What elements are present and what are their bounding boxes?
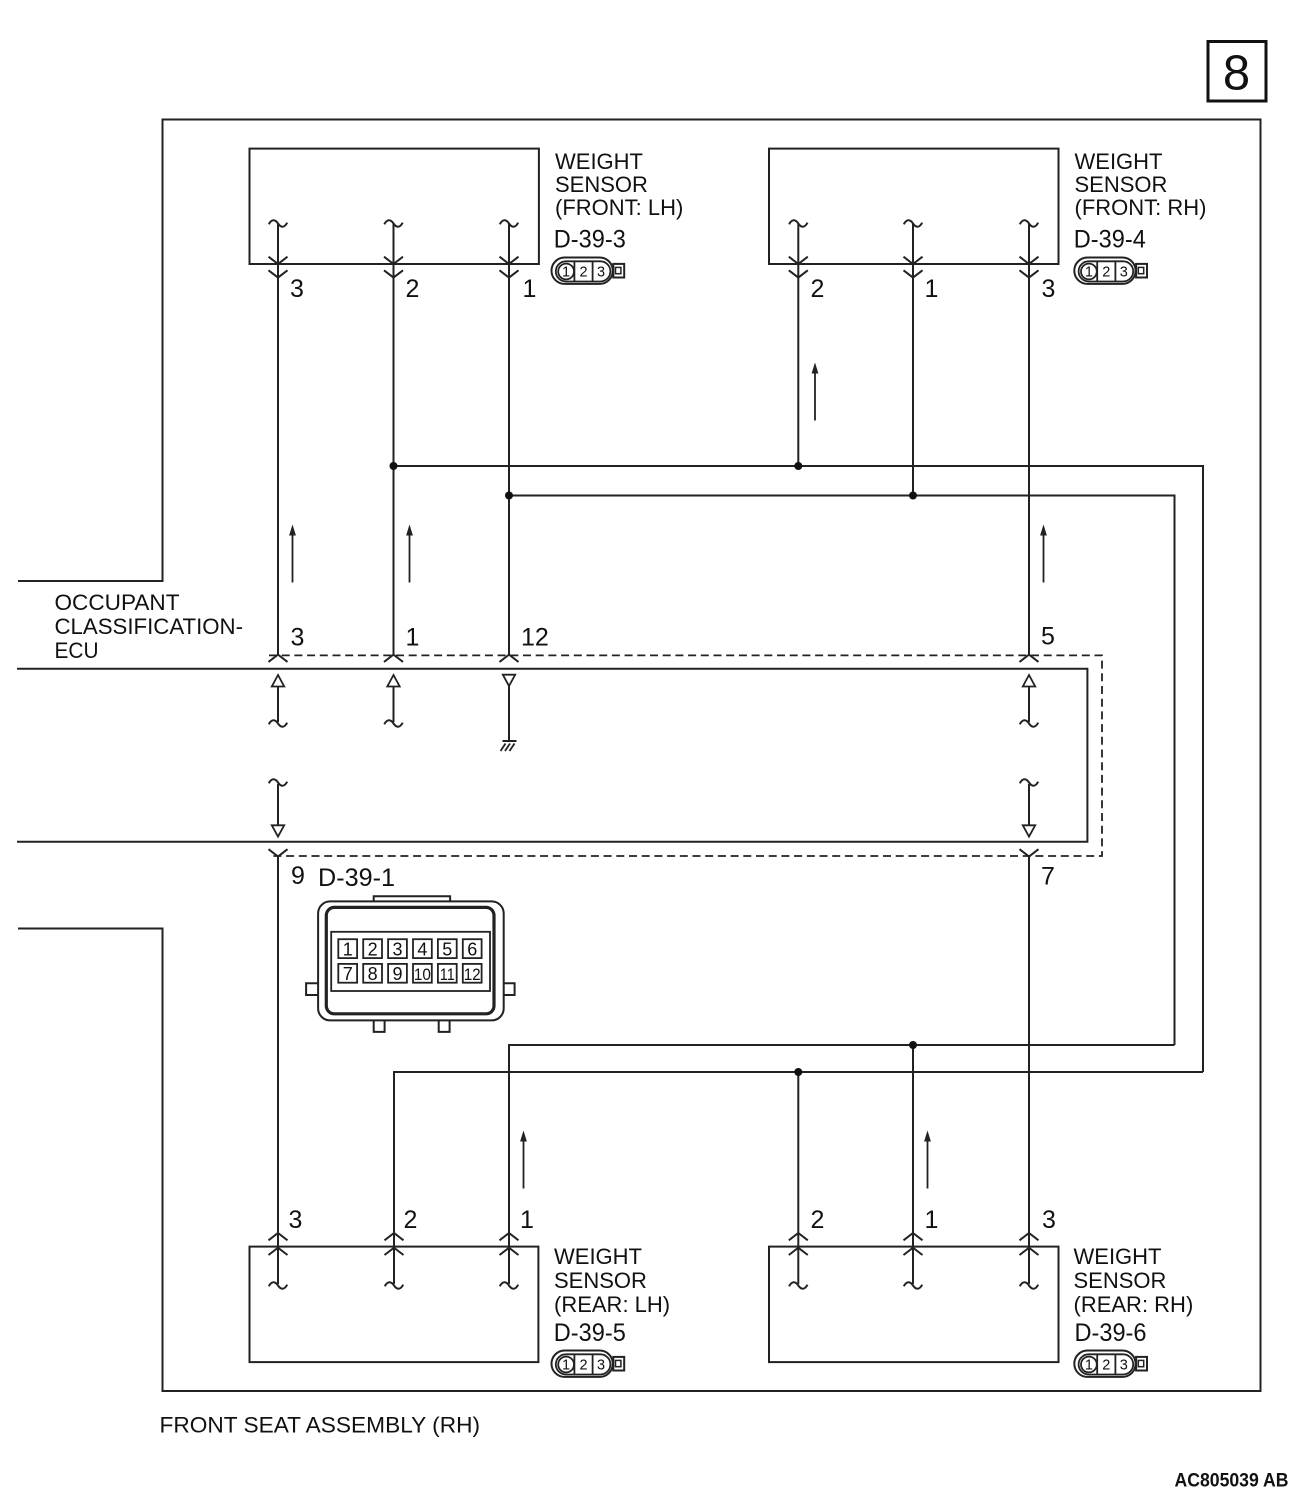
junction dot L2/front LH pin1 [505,492,513,500]
svg-text:5: 5 [442,939,452,959]
svg-text:D-39-1: D-39-1 [318,864,395,892]
svg-text:2: 2 [811,275,825,303]
svg-text:1: 1 [925,275,939,303]
svg-text:(REAR: LH): (REAR: LH) [554,1292,670,1317]
connector D-39-1 dashed outline [269,655,1102,856]
svg-text:11: 11 [440,965,455,984]
sheet number box 8 [1208,42,1266,102]
ECU pin 3 [269,624,305,727]
svg-text:3: 3 [1042,1206,1056,1234]
bus wire L3 to rear LH pin1 [509,1045,1175,1284]
svg-text:D-39-6: D-39-6 [1075,1319,1147,1347]
svg-text:1: 1 [925,1206,939,1234]
junction dot L3/rear RH pin1 [909,1041,917,1049]
ECU pin5 lower continuation [1020,779,1038,836]
svg-text:ECU: ECU [55,638,99,663]
label WEIGHT SENSOR (FRONT: RH) [1075,149,1207,220]
svg-text:2: 2 [811,1206,825,1234]
svg-text:AC805039 AB: AC805039 AB [1175,1470,1289,1492]
wire ECU pin7 to rear RH pin3 [1028,857,1030,1285]
ground at ECU pin 12 [501,741,517,751]
front RH pin2 terminal [789,220,825,303]
ECU pin 1 [384,624,419,727]
svg-text:12: 12 [464,965,481,984]
svg-text:7: 7 [343,964,353,984]
weight sensor front RH box [769,149,1059,264]
front LH pin3 terminal [269,220,304,303]
pin 7 cavity [338,964,357,983]
svg-text:(FRONT: LH): (FRONT: LH) [555,195,683,220]
rear LH pin3 terminal [269,1206,303,1289]
junction dot L4/rear RH pin2 [794,1068,802,1076]
wire front RH pin3 to ECU pin5 [1028,224,1030,655]
svg-text:SENSOR: SENSOR [1075,172,1168,197]
pin 5 cavity [438,939,457,958]
connector icon D-39-5 [552,1351,625,1377]
signal arrow near front RH pin2 wire [812,363,819,421]
signal arrow near rear LH pin1 wire [520,1131,527,1189]
pin 8 cavity [363,964,382,983]
svg-text:D-39-3: D-39-3 [554,225,626,253]
svg-text:D-39-4: D-39-4 [1074,225,1146,253]
svg-text:(FRONT: RH): (FRONT: RH) [1075,195,1207,220]
svg-text:SENSOR: SENSOR [1074,1268,1167,1293]
rear LH pin2 terminal [385,1206,418,1289]
front RH pin3 terminal [1020,220,1056,303]
svg-text:WEIGHT: WEIGHT [554,1244,642,1269]
connector icon D-39-4 [1074,258,1147,284]
connector D-39-1 housing icon [306,896,514,1032]
svg-text:2: 2 [404,1206,418,1234]
rear RH pin3 terminal [1020,1206,1056,1289]
weight sensor rear RH box [769,1247,1059,1363]
svg-text:1: 1 [523,275,537,303]
front LH pin2 terminal [384,220,419,303]
signal arrow near ECU pin5 [1040,525,1047,583]
wire front LH pin2 to ECU pin1 [393,224,395,655]
junction dot L1/front RH pin2 [794,462,802,470]
ECU pin 5 [1020,623,1055,727]
svg-text:1: 1 [406,624,420,652]
pin 3 cavity [388,939,407,958]
svg-text:3: 3 [290,275,304,303]
ECU pin 12 [500,624,549,741]
svg-text:3: 3 [291,624,305,652]
wire ECU pin9 to rear LH pin3 [277,857,279,1285]
label WEIGHT SENSOR (FRONT: LH) [555,149,683,220]
junction dot L2/front RH pin1 [909,492,917,500]
svg-text:6: 6 [467,939,477,959]
rear LH pin1 terminal [500,1206,534,1289]
svg-text:9: 9 [291,862,305,890]
pin 6 cavity [463,939,482,958]
wire front RH pin2 to bus L1 [797,224,799,466]
svg-text:10: 10 [414,965,431,984]
pin 2 cavity [363,939,382,958]
pin 12 cavity [463,964,482,983]
svg-text:1: 1 [520,1206,534,1234]
svg-text:9: 9 [392,964,402,984]
bus wire L4 to rear LH pin2 [394,1072,1203,1284]
front RH pin1 terminal [904,220,939,303]
svg-text:2: 2 [368,939,378,959]
label WEIGHT SENSOR (REAR: LH) [554,1244,670,1317]
connector icon D-39-6 [1074,1351,1147,1377]
svg-text:SENSOR: SENSOR [555,172,648,197]
wire drop to rear RH pin2 [797,1072,799,1284]
svg-text:D-39-5: D-39-5 [554,1319,626,1347]
bus wire L1 (pin1 net) [394,466,1204,1072]
svg-text:SENSOR: SENSOR [554,1268,647,1293]
junction dot L1/front LH pin2 [390,462,398,470]
signal arrow near ECU pin1 [406,525,413,583]
svg-text:CLASSIFICATION-: CLASSIFICATION- [55,614,243,639]
occupant classification ECU block [17,669,1087,842]
label WEIGHT SENSOR (REAR: RH) [1074,1244,1194,1317]
signal arrow near ECU pin3 [289,525,296,583]
svg-text:OCCUPANT: OCCUPANT [55,590,180,615]
bus wire L2 (pin12 net) [509,496,1175,1046]
weight sensor front LH box [250,149,539,264]
signal arrow near rear RH pin1 wire [924,1131,931,1189]
pin 4 cavity [413,939,432,958]
ECU pin 9 [269,849,305,890]
svg-text:5: 5 [1041,623,1055,651]
connector icon D-39-3 [552,258,625,284]
front LH pin1 terminal [500,220,537,303]
wire front LH pin3 to ECU pin3 [277,224,279,655]
svg-text:FRONT SEAT ASSEMBLY (RH): FRONT SEAT ASSEMBLY (RH) [160,1413,481,1438]
svg-text:(REAR: RH): (REAR: RH) [1074,1292,1194,1317]
ECU pin3 lower continuation [269,779,287,836]
svg-text:WEIGHT: WEIGHT [1074,1244,1162,1269]
svg-text:1: 1 [343,939,353,959]
svg-text:3: 3 [1042,275,1056,303]
pin 9 cavity [388,964,407,983]
ECU pin 7 [1020,849,1055,890]
weight sensor rear LH box [250,1247,539,1363]
svg-text:8: 8 [1223,47,1250,101]
wire drop to rear RH pin1 [912,1045,914,1284]
svg-text:7: 7 [1041,863,1055,891]
svg-text:12: 12 [521,624,549,652]
svg-text:3: 3 [289,1206,303,1234]
svg-text:4: 4 [417,939,427,959]
svg-text:WEIGHT: WEIGHT [555,149,643,174]
wire front RH pin1 to bus L2 [912,224,914,496]
pin 1 cavity [338,939,357,958]
svg-text:3: 3 [392,939,402,959]
pin 11 cavity [438,964,457,983]
svg-text:8: 8 [368,964,378,984]
svg-text:2: 2 [406,275,420,303]
rear RH pin1 terminal [904,1206,939,1289]
pin 10 cavity [413,964,432,983]
wire front LH pin1 to ECU pin12 [508,224,510,655]
rear RH pin2 terminal [789,1206,825,1289]
svg-text:WEIGHT: WEIGHT [1075,149,1163,174]
